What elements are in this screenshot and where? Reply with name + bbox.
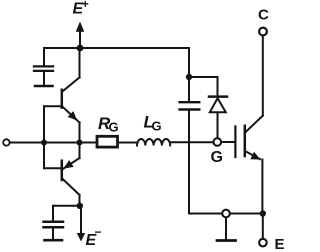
node junction B (driver output)	[77, 140, 83, 146]
svg-text:C: C	[258, 6, 269, 23]
diode D1 (cathode bar up)	[209, 97, 227, 138]
node junction at E- rail	[77, 203, 83, 209]
ground symbol	[217, 218, 236, 241]
inductor LG	[137, 139, 170, 146]
wire input vertical to bases	[43, 106, 45, 168]
node junction at E+ rail	[77, 45, 84, 52]
IGBT body bar	[244, 126, 247, 156]
transistor Q1 collector	[62, 48, 79, 92]
wire RG to LG	[119, 142, 138, 144]
wire Q1 base	[44, 105, 61, 107]
ground bar under C2	[45, 239, 63, 242]
input terminal circle	[3, 139, 9, 145]
wire junction to diode	[189, 77, 218, 96]
IGBT collector	[246, 37, 263, 132]
svg-text:G: G	[109, 120, 119, 135]
wire to capacitor C2	[53, 206, 80, 221]
capacitor C2	[44, 222, 64, 239]
wire LG to gate node G (crosses vertical line, no join)	[170, 141, 212, 143]
transistor Q1 emitter with arrow	[62, 107, 79, 143]
svg-text:G: G	[211, 149, 223, 166]
wire input to node	[10, 142, 44, 144]
wire Q2 base	[44, 167, 61, 169]
label E+	[73, 0, 89, 18]
transistor Q2 (PNP) base bar	[61, 161, 64, 180]
wire node A to node B	[44, 142, 80, 144]
wire G to gate bar	[222, 141, 235, 143]
power E+ arrow	[76, 22, 85, 49]
label LG	[144, 113, 162, 134]
transistor Q1 (NPN) base bar	[61, 90, 64, 108]
label E-	[86, 225, 102, 249]
wire junction to terminal E	[262, 217, 264, 238]
wire rail drop to capacitor C1	[43, 48, 45, 66]
node terminal G circle	[214, 138, 222, 146]
transistor Q2 emitter with arrow	[63, 143, 80, 170]
wire node B to resistor RG	[80, 142, 96, 144]
node auxiliary emitter circle	[222, 210, 230, 218]
node junction on clamp branch	[186, 74, 192, 80]
wire rail corner down at right	[188, 48, 190, 101]
node junction emitter rail	[260, 210, 266, 216]
node junction input A	[41, 140, 47, 146]
power E- arrow	[77, 206, 85, 242]
svg-text:+: +	[82, 0, 89, 11]
wire emitter rail	[189, 213, 263, 215]
wire E+ rail top	[44, 47, 189, 49]
svg-text:E: E	[275, 236, 285, 252]
ground bar under C1	[35, 85, 53, 88]
terminal C circle	[259, 28, 267, 36]
IGBT gate bar	[234, 126, 236, 157]
svg-text:−: −	[95, 225, 102, 239]
transistor Q2 collector	[62, 179, 79, 206]
IGBT emitter with arrow	[246, 152, 263, 214]
svg-text:G: G	[152, 119, 162, 134]
resistor RG	[97, 136, 118, 147]
capacitor C3	[180, 102, 200, 109]
label RG	[98, 114, 119, 135]
terminal E circle	[259, 239, 267, 247]
capacitor C1	[34, 66, 53, 85]
wire C3 down to emitter rail	[188, 111, 190, 214]
